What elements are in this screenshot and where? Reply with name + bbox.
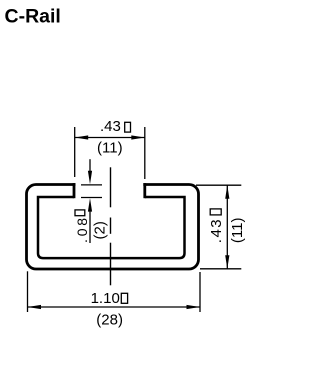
right dimension tofu box rotated (210, 209, 221, 215)
right lip end (143, 183, 146, 198)
right dimension arrow down (225, 255, 229, 268)
top dimension extension line right (144, 127, 146, 179)
svg-text:(11): (11) (97, 140, 123, 157)
right dimension line (226, 185, 228, 269)
top opening gap (76, 182, 144, 188)
top dimension line (75, 137, 145, 139)
svg-text:C-Rail: C-Rail (5, 6, 61, 28)
rail inner contour (38, 197, 185, 258)
top dimension arrow right (131, 135, 145, 139)
top dimension .43 (11): extension line left (74, 127, 76, 177)
lip thickness tofu box rotated (75, 210, 85, 216)
rail outer contour (27, 185, 199, 270)
lip thickness down arrow (89, 159, 91, 173)
svg-text:1.10: 1.10 (91, 290, 120, 307)
bottom dimension line (28, 306, 201, 308)
bottom dimension arrow right (187, 305, 201, 309)
lip thickness up arrow (88, 198, 92, 212)
right dimension extension line bottom (200, 268, 241, 270)
centerline (110, 167, 112, 285)
right dimension .43 (11): extension line top (196, 184, 241, 186)
svg-text:(28): (28) (96, 312, 123, 329)
bottom dimension arrow left (28, 305, 42, 309)
svg-text:(11): (11) (229, 218, 246, 244)
svg-text:.43: .43 (208, 218, 225, 243)
right dimension arrow up (225, 185, 229, 199)
top dimension arrow left (75, 135, 89, 139)
lip thickness dim .08 (2): extension line upper (81, 184, 102, 186)
left lip end (73, 183, 76, 198)
bottom dimension extension line right (199, 272, 201, 312)
bottom dimension tofu box (121, 293, 127, 303)
bottom dimension 1.10 (28): extension line left (27, 271, 29, 312)
svg-text:.08: .08 (74, 215, 90, 243)
top dimension tofu box (125, 122, 131, 132)
lip thickness extension line lower (81, 197, 102, 199)
svg-text:.43: .43 (100, 118, 121, 135)
svg-text:(2): (2) (91, 221, 108, 239)
